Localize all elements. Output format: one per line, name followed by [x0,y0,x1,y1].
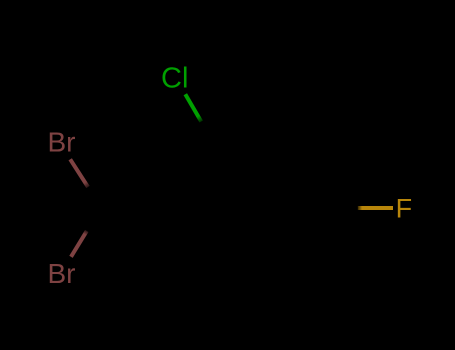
svg-text:Br: Br [48,127,76,158]
svg-text:Br: Br [48,258,76,289]
svg-text:F: F [396,194,413,224]
svg-text:Cl: Cl [161,63,188,95]
